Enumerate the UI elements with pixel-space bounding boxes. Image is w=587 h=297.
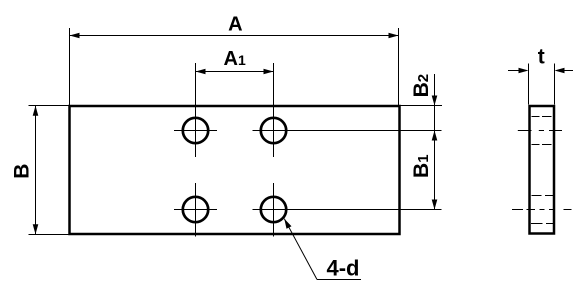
leader line 4-d underline xyxy=(317,279,361,281)
hole top-left xyxy=(183,118,208,143)
svg-text:A1: A1 xyxy=(224,48,246,70)
dimension B line xyxy=(35,106,37,234)
dimension B1 arrow down xyxy=(432,200,438,210)
hole bottom-left center line vertical xyxy=(195,183,197,237)
svg-text:A: A xyxy=(228,14,242,36)
hole bottom-right center line horizontal (extension for B1) xyxy=(253,209,442,211)
side view center line hole row2 xyxy=(512,209,572,211)
side view outline xyxy=(530,106,555,234)
dimension t extension line right xyxy=(554,64,556,105)
dimension t arrow right xyxy=(555,68,565,74)
dimension t extension line left xyxy=(528,64,530,105)
dimension A extension line right xyxy=(398,28,400,105)
svg-text:4-d: 4-d xyxy=(327,256,360,281)
dimension B2 extension line at plate top right xyxy=(400,105,443,107)
hole top-right center line vertical (extension for A1) xyxy=(273,63,275,157)
hole top-right center line horizontal (extension for B2) xyxy=(253,130,442,132)
svg-text:B: B xyxy=(10,164,33,179)
dimension B extension line bottom xyxy=(29,234,70,236)
dimension B2 arrow down xyxy=(432,96,438,106)
side view hidden line hole1 bottom xyxy=(532,144,540,146)
hole bottom-left center line horizontal xyxy=(174,209,217,211)
hole bottom-left xyxy=(183,197,208,222)
dimension B arrow bottom xyxy=(33,224,39,234)
dimension A1 line xyxy=(196,71,273,73)
hole bottom-right xyxy=(261,197,286,222)
dimension A arrow left xyxy=(70,33,80,39)
dimension A line xyxy=(70,35,398,37)
dimension B extension line top xyxy=(29,105,70,107)
dimension t line right xyxy=(563,70,573,72)
leader line 4-d diagonal xyxy=(284,219,317,280)
dimension B2 B1 shared line xyxy=(434,74,436,210)
dimension A1 arrow right xyxy=(264,69,274,75)
dimension t line left xyxy=(508,70,520,72)
hole top-left center line vertical (extension for A1) xyxy=(195,63,197,157)
dimension A1 arrow left xyxy=(196,69,206,75)
dimension B arrow top xyxy=(33,106,39,116)
dimension A arrow right xyxy=(389,33,399,39)
dimension t arrow left xyxy=(519,68,529,74)
dimension A extension line left xyxy=(69,28,71,105)
dimension B1 arrow up at hole line xyxy=(432,131,438,141)
svg-text:t: t xyxy=(538,46,545,69)
side view hidden line hole1 top xyxy=(532,116,540,118)
hole top-right xyxy=(261,118,286,143)
hole top-left center line horizontal xyxy=(174,130,217,132)
side view hidden line hole2 top xyxy=(532,195,542,197)
leader arrow at hole xyxy=(284,219,291,229)
side view hidden line hole2 bottom xyxy=(531,223,543,225)
plate front view outline xyxy=(70,106,400,234)
side view center line hole row1 xyxy=(518,130,562,132)
hole bottom-right center line vertical xyxy=(273,183,275,237)
